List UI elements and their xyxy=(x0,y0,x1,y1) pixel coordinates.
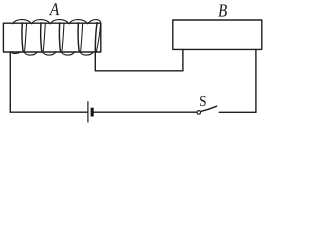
wire: left lead of B up to box xyxy=(182,49,184,70)
inductor A winding bottom arc 4 xyxy=(79,51,93,56)
wire: right lead of A down from winding xyxy=(94,49,96,71)
wire: bottom rail, battery negative plate to switch pivot xyxy=(94,111,197,113)
inductor A winding bottom arc 3 xyxy=(61,51,75,56)
label A (italic) above solenoid xyxy=(49,3,59,15)
label B (italic) above box xyxy=(218,5,227,17)
inductor A winding bottom arc 1 xyxy=(23,51,37,56)
switch S: lever arm (open) xyxy=(201,106,217,111)
inductor A winding turn 4 front strokes xyxy=(77,23,80,51)
wire: horizontal connector between A and B xyxy=(95,70,183,72)
switch S: pivot circle xyxy=(197,111,201,115)
box B rectangle xyxy=(173,20,262,49)
wire: bottom rail, switch contact to right corner xyxy=(219,111,256,113)
inductor A winding turn 3 front strokes xyxy=(58,23,61,51)
wire: right lead of B up from bottom rail xyxy=(255,49,257,112)
inductor A winding turn 5 front strokes xyxy=(95,23,97,49)
inductor A (solenoid) core rectangle xyxy=(3,23,100,52)
battery cell: short thick plate (negative) xyxy=(91,108,94,117)
wire: left lead of A down to bottom rail xyxy=(9,52,11,112)
inductor A winding top arcs (5 turns) xyxy=(12,20,100,24)
battery cell: long thin plate (positive) xyxy=(87,101,89,122)
wire: bottom rail, left corner to battery positive plate xyxy=(10,111,88,113)
inductor A winding turn 2 front strokes xyxy=(40,23,43,51)
inductor A winding lead-in arc (bottom left) xyxy=(11,52,21,54)
inductor A winding turn 1 front strokes xyxy=(21,23,24,51)
inductor A winding bottom arc 2 xyxy=(42,51,56,56)
label S above switch xyxy=(200,96,206,106)
